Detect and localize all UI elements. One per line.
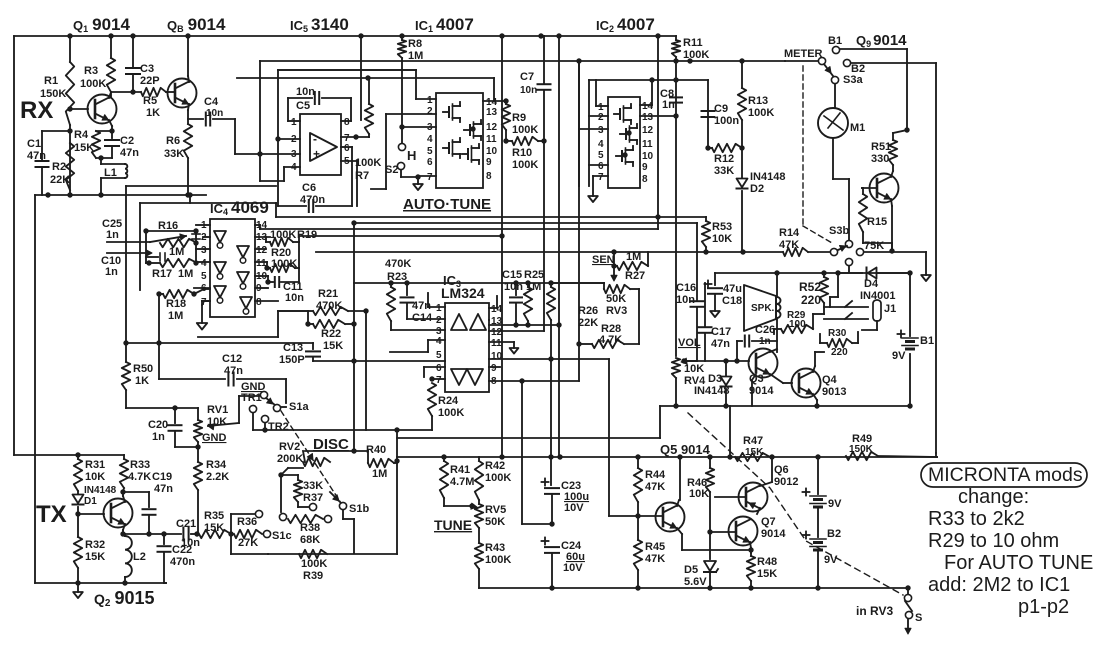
inverter IC4 a	[214, 231, 226, 242]
svg-text:R36: R36	[237, 516, 257, 528]
resistor R25	[524, 287, 532, 321]
svg-text:100K: 100K	[80, 78, 106, 90]
svg-text:4: 4	[291, 162, 297, 173]
svg-text:R48: R48	[757, 556, 777, 568]
svg-text:4.7M: 4.7M	[450, 476, 474, 488]
node Q9rail	[904, 127, 909, 132]
capacitor C1	[42, 130, 70, 132]
svg-text:C15: C15	[502, 269, 522, 281]
svg-text:4.7K: 4.7K	[128, 471, 151, 483]
wire top supply rail	[14, 35, 676, 37]
svg-text:1M: 1M	[526, 281, 541, 293]
svg-text:9: 9	[491, 363, 497, 374]
svg-text:Q7: Q7	[761, 516, 776, 528]
ground IC2 gnd	[588, 196, 598, 202]
svg-text:VOL: VOL	[678, 337, 701, 349]
svg-text:9014: 9014	[761, 528, 786, 540]
svg-text:+: +	[313, 147, 320, 161]
wire riser x260	[259, 61, 261, 181]
op-amp IC3 b	[470, 314, 486, 330]
svg-text:27K: 27K	[238, 537, 258, 549]
svg-text:10V: 10V	[564, 502, 584, 514]
resistor R49	[846, 452, 878, 460]
ground IC4 gnd	[197, 323, 207, 330]
svg-text:100K: 100K	[438, 407, 464, 419]
wire pin8 to R21	[278, 310, 308, 312]
diode D5 zener	[709, 532, 711, 559]
diode D2	[741, 148, 743, 178]
wire x551 to bus	[550, 359, 552, 457]
svg-text:R45: R45	[645, 541, 665, 553]
wire pin13 line	[488, 319, 490, 321]
svg-text:C17: C17	[711, 326, 731, 338]
wire pin7 gnd route	[202, 300, 210, 302]
resistor R37	[294, 480, 302, 502]
svg-text:3: 3	[598, 125, 604, 136]
wire bus to B2line	[935, 453, 937, 456]
svg-text:68K: 68K	[300, 534, 320, 546]
svg-text:100K: 100K	[270, 229, 296, 241]
svg-text:TX: TX	[36, 501, 67, 528]
resistor R44	[634, 468, 642, 502]
svg-text:10K: 10K	[689, 488, 709, 500]
svg-text:R40: R40	[366, 444, 386, 456]
svg-text:22K: 22K	[578, 317, 598, 329]
wire RV1 wiper	[208, 423, 239, 426]
wire 75K line	[864, 251, 926, 253]
svg-text:100K: 100K	[512, 159, 538, 171]
svg-text:8: 8	[486, 171, 492, 182]
node TX base	[75, 511, 80, 516]
svg-text:R31: R31	[85, 459, 105, 471]
wire C13-pin5	[313, 360, 445, 362]
wire IC2 outer top	[589, 79, 708, 81]
wire TR2 bus	[253, 429, 432, 431]
resistor R48	[747, 556, 755, 581]
node R3-R5	[111, 91, 141, 93]
svg-text:22P: 22P	[140, 75, 160, 87]
terminal TR1b	[249, 405, 256, 412]
wire Q4 emitter	[813, 394, 817, 400]
wire S2 to gnd	[400, 170, 402, 177]
resistor R47	[735, 453, 770, 461]
svg-text:B1: B1	[920, 335, 934, 347]
terminal R38 left	[279, 513, 286, 520]
svg-text:10K: 10K	[712, 233, 732, 245]
svg-text:1M: 1M	[178, 268, 193, 280]
svg-text:RV5: RV5	[485, 504, 506, 516]
capacitor C13	[312, 343, 314, 349]
inductor L2	[125, 536, 132, 577]
wire IC2 outer right	[707, 80, 709, 148]
mosfet IC1 c	[469, 125, 471, 135]
svg-text:10n: 10n	[181, 537, 200, 549]
svg-text:9V: 9V	[828, 498, 842, 510]
svg-text:IC14007: IC14007	[415, 15, 474, 34]
svg-text:B2: B2	[827, 528, 841, 540]
resistor R33	[120, 459, 128, 488]
svg-text:R5: R5	[143, 95, 157, 107]
wire spk top	[776, 273, 778, 297]
diode D3	[725, 361, 727, 376]
wire Q3 collector	[770, 349, 777, 352]
resistor R29	[781, 325, 813, 333]
wire QB emitter node	[188, 104, 189, 110]
resistor R30	[827, 339, 852, 347]
wire spk bottom to Q3	[776, 318, 778, 352]
mosfet IC2 c	[621, 151, 623, 161]
node pin3 tap	[399, 124, 404, 129]
wire pin1-2 cluster	[146, 230, 196, 232]
svg-text:100K: 100K	[355, 157, 381, 169]
resistor R4	[92, 131, 100, 158]
resistor R17	[160, 259, 197, 267]
wire pin12 line	[489, 330, 544, 332]
switch meter arm	[824, 64, 833, 76]
resistor R50	[122, 362, 130, 390]
svg-text:R44: R44	[645, 469, 666, 481]
svg-text:4: 4	[201, 258, 207, 269]
wire IC2 pin6 stub	[589, 164, 608, 166]
speaker SPK	[744, 285, 776, 331]
node emitter	[109, 128, 114, 133]
wire Q5 base	[638, 515, 663, 517]
speaker coil	[777, 297, 781, 318]
resistor R16	[160, 239, 197, 247]
junction rail dots	[67, 33, 72, 38]
capacitor C22	[163, 534, 165, 544]
svg-text:R13: R13	[748, 95, 768, 107]
svg-text:4: 4	[598, 139, 604, 150]
svg-text:C14: C14	[412, 312, 433, 324]
wire S arrow	[907, 619, 909, 631]
svg-text:47K: 47K	[645, 553, 665, 565]
wire bus y61	[260, 60, 785, 62]
svg-text:6: 6	[344, 143, 350, 154]
diode D1	[73, 495, 84, 504]
svg-text:C21: C21	[176, 518, 196, 530]
svg-text:2: 2	[427, 106, 433, 117]
wire emitter line	[123, 533, 181, 535]
svg-text:C7: C7	[520, 71, 534, 83]
svg-text:220: 220	[801, 293, 821, 307]
wire R39 line	[268, 553, 397, 555]
svg-text:5: 5	[427, 146, 433, 157]
node x126-y343	[123, 340, 128, 345]
svg-text:Q29015: Q29015	[94, 588, 155, 609]
ground IC1 gnd	[413, 184, 423, 190]
resistor R21	[313, 307, 348, 315]
transistor Q5	[656, 503, 685, 532]
svg-text:C13: C13	[283, 342, 303, 354]
switch S3b arm	[838, 246, 847, 250]
svg-text:2.2K: 2.2K	[206, 471, 229, 483]
svg-text:10n: 10n	[285, 292, 304, 304]
wire gnd bus drop	[34, 195, 36, 583]
svg-text:For AUTO TUNE: For AUTO TUNE	[944, 552, 1093, 574]
svg-text:RV1: RV1	[207, 404, 228, 416]
svg-text:RV3: RV3	[606, 305, 627, 317]
svg-text:R50: R50	[133, 363, 153, 375]
resistor R40	[368, 459, 394, 467]
wire R8 column	[398, 40, 406, 58]
wire x354 long	[353, 223, 355, 451]
terminal S3b	[845, 240, 852, 247]
wire y438 line	[397, 437, 660, 439]
wire DISC line	[305, 450, 368, 452]
meter M1	[818, 108, 848, 138]
terminal R38 right	[324, 515, 331, 522]
svg-text:1M: 1M	[408, 50, 423, 62]
svg-text:33K: 33K	[164, 148, 184, 160]
resistor R23	[387, 287, 395, 321]
capacitor C16	[696, 223, 698, 300]
svg-text:5: 5	[598, 150, 604, 161]
wire audio top	[715, 272, 910, 274]
svg-text:R14: R14	[779, 227, 800, 239]
svg-text:10n: 10n	[206, 108, 223, 119]
wire audio bottom rail	[660, 405, 910, 407]
resistor R18	[163, 290, 194, 298]
resistor R43	[475, 543, 483, 569]
svg-text:200K: 200K	[277, 453, 303, 465]
resistor R32	[74, 537, 82, 568]
resistor R12	[712, 144, 742, 152]
wire QB collector	[188, 76, 189, 82]
wire x579 long	[578, 61, 580, 381]
svg-text:C18: C18	[722, 295, 742, 307]
svg-text:75K: 75K	[864, 240, 884, 252]
svg-text:R32: R32	[85, 539, 105, 551]
svg-text:R27: R27	[625, 270, 645, 282]
wire RV3 right	[630, 288, 639, 290]
terminal TR1a	[260, 391, 267, 398]
svg-text:7: 7	[598, 172, 604, 183]
svg-text:33K: 33K	[714, 165, 734, 177]
wire bus y223	[354, 222, 697, 224]
wire Q4 collector	[813, 366, 815, 372]
terminal meter sw	[818, 57, 825, 64]
wire IC2 pin14 tap	[640, 104, 652, 106]
capacitor C6	[278, 205, 306, 207]
wire M1 bottom	[832, 138, 834, 179]
svg-text:IN4148: IN4148	[694, 385, 729, 397]
wire ground bus RX	[35, 194, 206, 196]
svg-text:47n: 47n	[27, 150, 46, 162]
ic IC2 box	[608, 97, 640, 188]
svg-text:47K: 47K	[779, 239, 799, 251]
inverter IC4 e	[237, 272, 249, 283]
resistor R31	[74, 459, 82, 491]
svg-text:H: H	[407, 148, 416, 163]
svg-text:10n: 10n	[676, 294, 695, 306]
svg-text:15K: 15K	[323, 340, 343, 352]
svg-text:R37: R37	[303, 492, 323, 504]
resistor R20	[270, 264, 295, 272]
svg-text:100K: 100K	[271, 258, 297, 270]
resistor R52	[820, 277, 828, 303]
ground TX gnd	[77, 583, 79, 592]
svg-text:R7: R7	[355, 170, 369, 182]
svg-text:7: 7	[427, 172, 433, 183]
svg-text:C5: C5	[296, 100, 310, 112]
svg-text:S2: S2	[385, 164, 398, 176]
inverter IC4 c	[214, 286, 226, 297]
svg-text:change:: change:	[958, 486, 1029, 508]
svg-text:10n: 10n	[296, 86, 315, 98]
svg-text:8: 8	[642, 174, 648, 185]
jack contacts	[824, 306, 868, 308]
wire Q6 base	[715, 496, 746, 498]
svg-text:C20: C20	[148, 419, 168, 431]
inverter IC4 d	[237, 246, 249, 257]
wire SEN stem	[613, 252, 615, 266]
op-amp U5 triangle	[310, 133, 337, 161]
svg-text:15K: 15K	[74, 142, 94, 154]
svg-text:R34: R34	[206, 459, 227, 471]
resistor R41	[440, 461, 448, 498]
wire Q9b emitter	[891, 199, 892, 206]
svg-text:10n: 10n	[520, 85, 537, 96]
svg-text:R29 to 10 ohm: R29 to 10 ohm	[928, 530, 1059, 552]
svg-text:15K: 15K	[757, 568, 777, 580]
resistor R51	[889, 140, 897, 165]
svg-text:L1: L1	[104, 167, 117, 179]
resistor R10	[512, 137, 538, 145]
node bus252	[889, 248, 894, 253]
svg-text:13: 13	[642, 112, 654, 123]
svg-text:4: 4	[436, 336, 442, 347]
svg-text:47n: 47n	[154, 483, 173, 495]
wire pin10 drop	[608, 359, 610, 516]
svg-text:C2: C2	[120, 135, 134, 147]
node Q1 base	[67, 106, 72, 111]
wire IC4 bottom route	[198, 336, 278, 338]
wire RV2 left drop	[288, 467, 303, 469]
svg-text:470n: 470n	[300, 194, 325, 206]
mosfet IC1 a	[448, 107, 450, 117]
node R9-R10	[503, 138, 508, 143]
inverter IC4 b	[214, 262, 226, 273]
svg-text:470K: 470K	[316, 300, 342, 312]
svg-text:D5: D5	[684, 564, 698, 576]
svg-text:C16: C16	[676, 282, 696, 294]
svg-text:R17: R17	[152, 268, 172, 280]
svg-text:100K: 100K	[301, 558, 327, 570]
svg-text:22K: 22K	[50, 174, 70, 186]
svg-text:Q5 9014: Q5 9014	[660, 442, 711, 457]
svg-text:B1: B1	[828, 35, 842, 47]
svg-text:IN4148: IN4148	[750, 171, 785, 183]
capacitor C9	[702, 110, 715, 112]
svg-text:11: 11	[486, 134, 497, 145]
svg-text:7: 7	[436, 375, 442, 386]
svg-text:IN4148: IN4148	[84, 485, 117, 496]
resistor R39	[299, 550, 327, 558]
terminal S1a	[273, 404, 280, 411]
svg-text:C9: C9	[714, 103, 728, 115]
wire Q6-Q7	[757, 508, 760, 514]
node R18-y343	[156, 340, 161, 345]
svg-text:R8: R8	[408, 38, 422, 50]
wire x676 long	[675, 61, 677, 356]
svg-text:Q19014: Q19014	[73, 15, 131, 34]
svg-text:1n: 1n	[662, 99, 675, 111]
svg-text:5: 5	[436, 350, 442, 361]
svg-text:R39: R39	[303, 570, 323, 582]
svg-text:R10: R10	[512, 147, 532, 159]
wire R18 drop	[158, 294, 160, 379]
svg-text:R47: R47	[743, 435, 763, 447]
wire IC2 pin7 gnd	[593, 175, 608, 177]
resistor R9	[502, 104, 510, 130]
ic IC4 box	[210, 219, 255, 317]
capacitor C15	[515, 283, 517, 295]
op-amp IC3 c	[451, 369, 467, 385]
wire x502 long	[501, 36, 503, 457]
svg-text:-: -	[313, 132, 317, 146]
resistor R19	[270, 238, 293, 246]
terminal S3b-3	[845, 258, 852, 265]
svg-text:3: 3	[201, 245, 207, 256]
capacitor C11	[274, 277, 276, 287]
transistor Q6	[739, 483, 768, 512]
terminal top R36	[255, 510, 262, 517]
wire meter lead	[785, 60, 818, 62]
resistor R24	[428, 383, 436, 416]
svg-text:S3b: S3b	[829, 225, 849, 237]
svg-text:470n: 470n	[170, 556, 195, 568]
capacitor C3	[126, 67, 140, 69]
svg-text:12: 12	[491, 327, 503, 338]
svg-text:10K: 10K	[684, 363, 704, 375]
wire dashed meter link	[802, 66, 804, 226]
capacitor C23	[550, 457, 552, 485]
svg-text:1n: 1n	[106, 229, 119, 241]
wire x366	[365, 312, 367, 430]
svg-text:R53: R53	[712, 221, 732, 233]
resistor R11	[672, 40, 680, 57]
svg-text:J1: J1	[884, 303, 896, 315]
terminal S2	[397, 162, 404, 169]
svg-text:R11: R11	[683, 37, 703, 49]
wire y408	[126, 407, 198, 409]
svg-text:C12: C12	[222, 353, 242, 365]
svg-text:150P: 150P	[279, 354, 305, 366]
wire gnd bus riser	[189, 195, 191, 203]
pot RV5	[475, 504, 483, 528]
wire S1b drop	[342, 510, 344, 519]
svg-text:100: 100	[789, 319, 806, 330]
svg-text:11: 11	[642, 139, 653, 150]
wire IC4 outer left	[139, 203, 141, 290]
wire bus SEN y252	[316, 251, 783, 253]
svg-text:9V: 9V	[824, 554, 838, 566]
capacitor C20	[174, 408, 176, 423]
svg-text:1n: 1n	[152, 431, 165, 443]
svg-text:150K: 150K	[40, 88, 66, 100]
svg-text:R41: R41	[450, 464, 470, 476]
svg-text:S1a: S1a	[289, 401, 309, 413]
resistor R35	[199, 530, 231, 538]
svg-text:4.7K: 4.7K	[599, 334, 622, 346]
resistor R27	[617, 262, 648, 270]
svg-text:TR2: TR2	[268, 421, 289, 433]
transistor Q1	[88, 95, 117, 124]
svg-text:13: 13	[486, 107, 498, 118]
resistor R2	[66, 143, 74, 190]
wire Q1 collector	[109, 92, 111, 98]
